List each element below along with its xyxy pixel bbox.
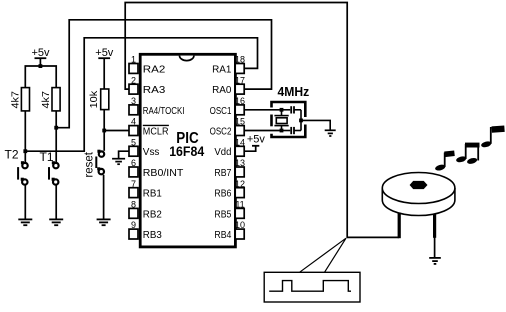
svg-text:16: 16 — [235, 96, 245, 106]
svg-text:OSC1: OSC1 — [210, 106, 232, 117]
wire OSC2 to resonator — [244, 130, 281, 132]
crystal element inside resonator — [274, 110, 288, 131]
node R2/T1 junction — [54, 126, 58, 130]
svg-text:RB3: RB3 — [143, 230, 162, 241]
callout pointer lines — [300, 238, 347, 272]
svg-text:5: 5 — [131, 137, 136, 147]
pushbutton reset — [95, 150, 104, 175]
IC U1 PIC 16F84 body — [140, 54, 235, 247]
node OSC1 resonator junction — [280, 108, 284, 112]
svg-text:4: 4 — [131, 117, 136, 127]
svg-text:+5v: +5v — [95, 47, 114, 59]
svg-text:3: 3 — [131, 96, 136, 106]
pin 7 box — [129, 188, 138, 198]
ground (below T1) — [49, 219, 63, 225]
svg-text:10: 10 — [235, 220, 245, 230]
pin 4 box — [129, 126, 138, 136]
wire net RA0 to R2/T1 node — [56, 20, 271, 128]
wire reset to ground — [103, 175, 105, 219]
resistor R (4k7 right) — [40, 88, 60, 111]
callout box — [264, 272, 360, 302]
svg-text:11: 11 — [235, 200, 244, 210]
buzzer LS1 body — [382, 173, 455, 216]
wire Vdd to +5v — [244, 146, 255, 152]
pin 5 box — [129, 146, 138, 156]
ground (below T2) — [18, 219, 32, 225]
pin 1 box — [129, 64, 138, 74]
svg-text:12: 12 — [235, 179, 245, 189]
svg-text:RB7: RB7 — [214, 168, 231, 179]
wire net RA3 to buzzer (top rail) — [125, 3, 399, 238]
music note pair (beamed) — [455, 143, 479, 165]
pin 14 box — [235, 146, 244, 156]
svg-text:7: 7 — [131, 179, 136, 189]
svg-text:RB1: RB1 — [143, 189, 162, 200]
music note 1 — [434, 150, 454, 171]
node OSC2 resonator junction — [280, 129, 284, 133]
wire T2 to ground — [24, 185, 26, 219]
pin 11 box — [235, 208, 244, 218]
wire Vss to ground — [119, 151, 129, 158]
svg-text:8: 8 — [131, 200, 136, 210]
wire 10k to reset button — [103, 110, 105, 151]
svg-text:RB0/INT: RB0/INT — [143, 168, 184, 179]
svg-text:+5v: +5v — [247, 133, 266, 145]
+5v supply symbol (left) — [31, 47, 50, 66]
pin 2 box — [129, 84, 138, 94]
node R1/T2 junction — [23, 149, 27, 153]
svg-text:4k7: 4k7 — [40, 91, 52, 109]
wire buzzer right leg to ground — [434, 237, 436, 257]
svg-text:T1: T1 — [40, 150, 54, 164]
+5v supply symbol (10k) — [95, 47, 114, 89]
pin 18 box — [235, 64, 244, 74]
wire net RA1 to R1/T2 node — [25, 38, 257, 151]
svg-text:10k: 10k — [88, 90, 100, 108]
svg-text:2: 2 — [131, 75, 136, 85]
svg-text:RB4: RB4 — [214, 230, 231, 241]
wire resonator caps common rail — [300, 110, 302, 131]
resonator X1 box outline — [272, 102, 306, 137]
wire T1 to ground — [55, 185, 57, 219]
wire R left bottom to T2 — [24, 111, 26, 162]
pin 3 box — [129, 105, 138, 115]
node MCLR junction — [102, 129, 106, 133]
pin 15 box — [235, 126, 244, 136]
svg-text:6: 6 — [131, 158, 136, 168]
svg-text:T2: T2 — [5, 147, 19, 161]
svg-text:RA4/TOCKI: RA4/TOCKI — [143, 106, 185, 117]
resistor R (4k7 left) — [9, 88, 29, 111]
wire resonator to ground — [301, 120, 330, 130]
svg-text:15: 15 — [235, 117, 245, 127]
capacitor C2 (bottom, inside resonator) — [282, 127, 302, 134]
svg-text:Vdd: Vdd — [214, 147, 231, 158]
svg-text:RB5: RB5 — [214, 209, 231, 220]
wire +5v rail to resistor tops — [25, 66, 56, 88]
resistor 10k — [88, 89, 109, 110]
pin 10 box — [235, 229, 244, 239]
svg-text:RB6: RB6 — [214, 189, 231, 200]
ground (buzzer) — [429, 258, 441, 264]
IC notch — [180, 56, 194, 61]
ground (Vss) — [112, 159, 125, 165]
pin 9 box — [129, 229, 138, 239]
node: +5v rail junction — [39, 64, 43, 68]
pushbutton T1 — [48, 161, 59, 185]
pin 6 box — [129, 167, 138, 177]
buzzer left leg — [398, 213, 401, 239]
wire MCLR to pin 4 — [104, 130, 128, 132]
svg-text:13: 13 — [235, 158, 245, 168]
svg-text:16F84: 16F84 — [169, 144, 204, 159]
svg-text:18: 18 — [235, 55, 245, 65]
ground (below reset) — [97, 219, 111, 225]
ground (resonator) — [325, 130, 336, 136]
svg-text:1: 1 — [131, 55, 136, 65]
buzzer right leg — [433, 214, 436, 238]
pin 17 box — [235, 84, 244, 94]
svg-text:4MHz: 4MHz — [278, 85, 310, 99]
pin 13 box — [235, 167, 244, 177]
svg-text:RB2: RB2 — [143, 209, 162, 220]
svg-text:RA0: RA0 — [212, 85, 232, 96]
square wave inside callout — [269, 281, 351, 292]
wire OSC1 to resonator — [244, 109, 281, 111]
svg-text:reset: reset — [83, 151, 95, 177]
svg-text:+5v: +5v — [31, 47, 50, 59]
svg-text:14: 14 — [235, 137, 245, 147]
capacitor C1 (top, inside resonator) — [282, 106, 302, 113]
music note 3 — [480, 125, 504, 148]
svg-text:OSC2: OSC2 — [210, 127, 232, 138]
svg-text:RA3: RA3 — [143, 85, 166, 96]
svg-text:Vss: Vss — [143, 147, 160, 158]
svg-text:4k7: 4k7 — [9, 91, 21, 109]
node resonator ground junction — [299, 119, 303, 123]
wire R right bottom to T1 — [55, 111, 57, 162]
svg-text:RA1: RA1 — [212, 64, 232, 75]
pin 8 box — [129, 208, 138, 218]
svg-text:17: 17 — [235, 75, 245, 85]
pin 16 box — [235, 105, 244, 115]
+5v supply symbol (Vdd) — [247, 133, 266, 146]
pin 12 box — [235, 188, 244, 198]
pushbutton T2 — [17, 161, 28, 185]
svg-text:RA2: RA2 — [143, 64, 166, 75]
svg-text:9: 9 — [131, 220, 136, 230]
svg-text:MCLR: MCLR — [143, 127, 169, 138]
